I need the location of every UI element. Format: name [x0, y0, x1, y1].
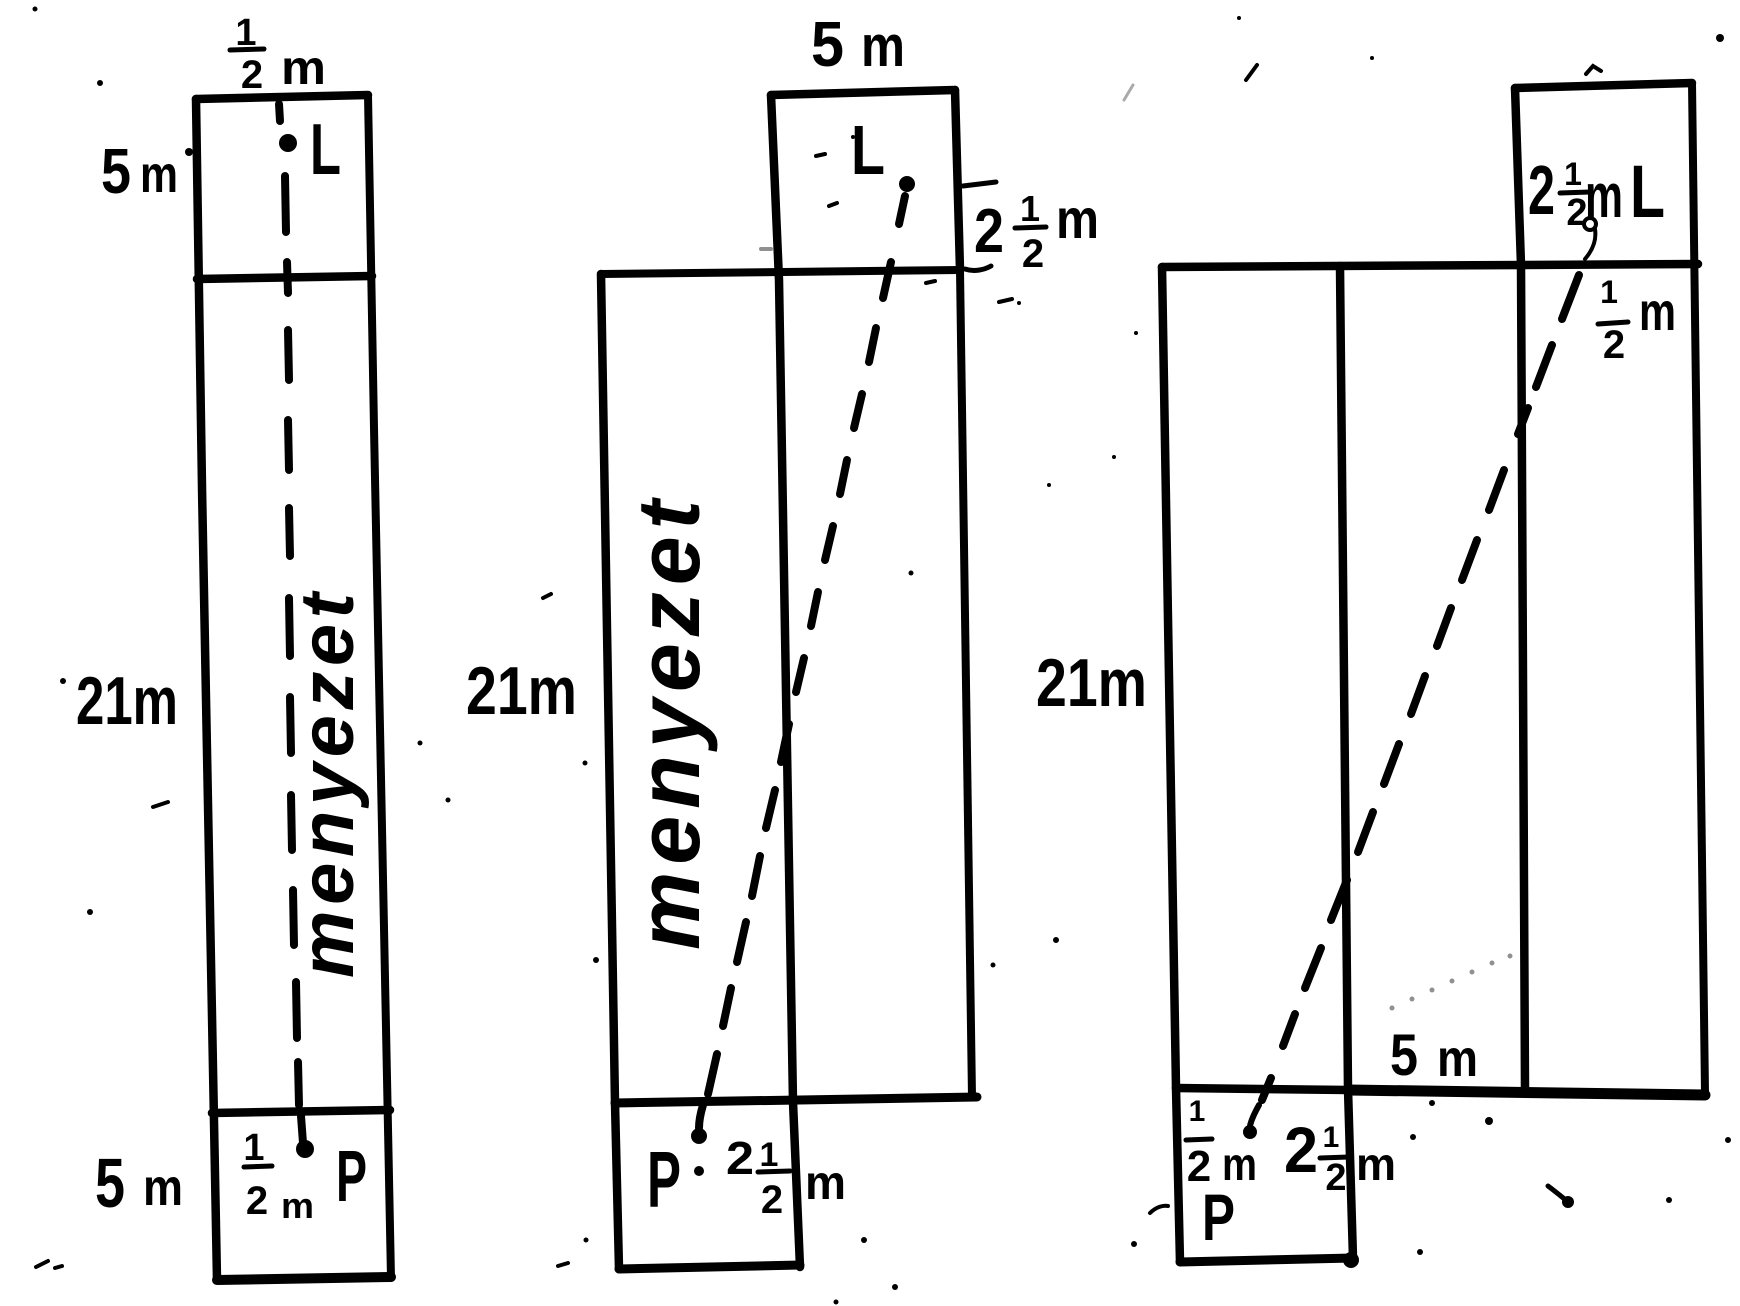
fig3 inner vertical line	[1340, 266, 1348, 1089]
svg-text:L: L	[851, 111, 885, 189]
fig2 long vertical line (top-rect left edge + divider + bottom-ext right edge)	[771, 95, 800, 1267]
fig1 point P	[296, 1140, 314, 1158]
svg-text:2: 2	[241, 53, 263, 97]
svg-text:2: 2	[246, 1179, 268, 1223]
fig3 outline	[1162, 83, 1705, 1262]
svg-text:1: 1	[1323, 1121, 1340, 1154]
svg-text:5: 5	[95, 1144, 125, 1222]
fig3 top wall rect top edge	[1515, 83, 1692, 88]
svg-text:L: L	[310, 110, 341, 190]
svg-text:2: 2	[1022, 232, 1044, 276]
fig2 outline	[601, 90, 977, 1269]
fig3 dashed path L to P	[1262, 275, 1579, 1100]
fig1 left edge	[196, 99, 217, 1280]
bottom-right arrow-like mark	[1548, 1186, 1567, 1201]
fig3 wide rect bottom edge right part	[1348, 1090, 1705, 1095]
fig3 long vertical line left of top rect continuing down	[1515, 88, 1525, 1090]
svg-text:2: 2	[1603, 323, 1625, 367]
fig1 room unfolding outline	[196, 95, 391, 1280]
fig3 wide rect left edge	[1162, 267, 1176, 1088]
fig2 point P	[691, 1128, 707, 1144]
svg-text:m: m	[281, 42, 326, 95]
fig1 lower divider	[212, 1110, 390, 1113]
fig2 wide rect right edge	[960, 270, 972, 1097]
fig3 point L hook	[1584, 218, 1596, 230]
fig2 measure tick bottom	[965, 266, 991, 270]
svg-text:menyezet: menyezet	[285, 590, 370, 978]
svg-text:2: 2	[726, 1132, 754, 1184]
svg-text:m: m	[805, 1157, 846, 1210]
svg-text:m: m	[143, 1159, 183, 1217]
svg-text:m: m	[281, 1185, 314, 1226]
svg-text:21m: 21m	[76, 663, 178, 739]
svg-text:1: 1	[243, 1127, 264, 1169]
svg-text:1: 1	[760, 1136, 779, 1174]
fig3 right edge	[1692, 83, 1705, 1093]
fig2 wide rect top edge	[601, 270, 960, 274]
svg-text:m: m	[1639, 282, 1676, 342]
fig2 wide rect left edge	[601, 274, 615, 1103]
fig2 wide rect bottom edge	[615, 1097, 977, 1103]
svg-text:2: 2	[1325, 1157, 1346, 1199]
fig2 measure tick top	[963, 182, 996, 186]
svg-text:m: m	[1056, 187, 1099, 250]
svg-text:21m: 21m	[466, 653, 577, 729]
fig3 bottom ext left edge	[1176, 1088, 1180, 1262]
fig3 point P	[1243, 1125, 1257, 1139]
fig2 bottom ext left edge	[615, 1103, 619, 1269]
fig1 upper divider	[197, 276, 372, 279]
svg-text:1: 1	[1564, 156, 1582, 192]
fig2 top wall rect top edge	[771, 90, 955, 95]
svg-text:21m: 21m	[1036, 645, 1147, 721]
svg-text:5: 5	[1390, 1023, 1418, 1088]
svg-text:5: 5	[811, 8, 844, 80]
faint pencil trail	[759, 247, 1513, 1011]
svg-text:L: L	[1630, 150, 1665, 233]
fig1 point L	[279, 134, 297, 152]
svg-text:2: 2	[1284, 1114, 1318, 1186]
fig2 bottom ext bottom edge	[619, 1265, 800, 1269]
svg-text:m: m	[861, 14, 905, 79]
svg-text:5: 5	[101, 135, 131, 207]
fig1 dashed path L to P	[279, 104, 303, 1143]
svg-text:1: 1	[1189, 1095, 1206, 1128]
fig1 bottom edge	[217, 1277, 391, 1280]
svg-text:P: P	[647, 1135, 681, 1224]
svg-text:m: m	[1356, 1138, 1396, 1190]
svg-text:m: m	[1437, 1030, 1478, 1088]
fig1 right edge	[368, 95, 391, 1278]
fig2 top wall rect right edge	[955, 90, 960, 270]
svg-text:P: P	[336, 1137, 367, 1217]
svg-text:1: 1	[1600, 274, 1618, 310]
svg-text:2: 2	[761, 1178, 783, 1222]
fig1 top edge	[196, 95, 368, 99]
svg-text:2: 2	[1528, 151, 1555, 229]
svg-text:P: P	[1202, 1180, 1235, 1254]
fig3 bottom-ext right edge	[1348, 1089, 1353, 1258]
fig2 period after P	[694, 1166, 704, 1176]
fig3 wide rect top edge	[1162, 264, 1698, 267]
svg-text:2: 2	[974, 197, 1004, 266]
svg-text:m: m	[140, 146, 178, 204]
fig2 dashed path L to P	[699, 196, 905, 1128]
svg-text:1: 1	[1020, 188, 1040, 229]
svg-text:m: m	[1585, 162, 1623, 231]
fig3 wide rect bottom edge left part	[1176, 1088, 1348, 1090]
fig3 bottom ext bottom edge	[1180, 1258, 1353, 1262]
fig2 point L	[899, 176, 915, 192]
svg-text:menyezet: menyezet	[619, 496, 718, 950]
